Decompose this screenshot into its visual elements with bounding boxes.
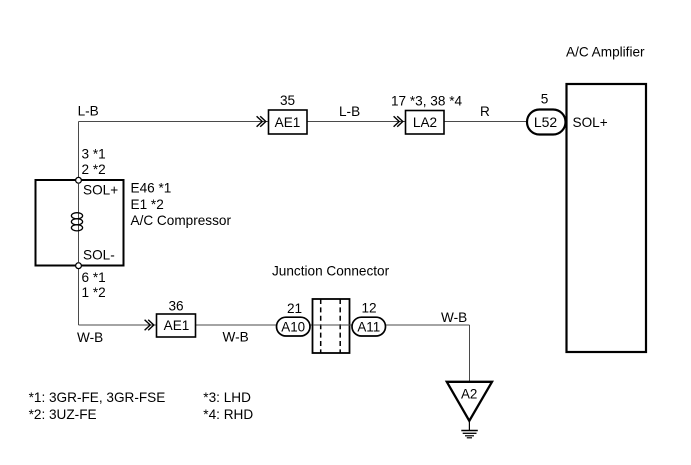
svg-text:AE1: AE1 (164, 318, 190, 333)
svg-text:17 *3, 38 *4: 17 *3, 38 *4 (391, 94, 462, 109)
svg-text:LA2: LA2 (413, 115, 437, 130)
svg-text:21: 21 (287, 301, 302, 316)
svg-text:SOL+: SOL+ (573, 115, 608, 130)
svg-text:35: 35 (280, 93, 295, 108)
svg-text:A2: A2 (461, 387, 477, 402)
svg-text:2 *2: 2 *2 (82, 162, 106, 177)
svg-text:A/C Compressor: A/C Compressor (131, 213, 232, 228)
svg-text:R: R (480, 104, 490, 119)
svg-text:*3: LHD: *3: LHD (203, 390, 251, 405)
svg-text:W-B: W-B (77, 330, 103, 345)
svg-text:W-B: W-B (223, 330, 249, 345)
svg-text:*2: 3UZ-FE: *2: 3UZ-FE (29, 407, 97, 422)
svg-text:36: 36 (168, 299, 183, 314)
svg-text:Junction Connector: Junction Connector (272, 264, 390, 279)
svg-text:L52: L52 (534, 114, 558, 130)
svg-text:SOL-: SOL- (83, 248, 115, 263)
svg-text:E46 *1: E46 *1 (131, 181, 172, 196)
svg-text:L-B: L-B (339, 104, 360, 119)
svg-text:L-B: L-B (78, 104, 99, 119)
svg-text:A10: A10 (281, 320, 305, 335)
svg-text:E1 *2: E1 *2 (131, 197, 164, 212)
svg-text:A11: A11 (357, 320, 380, 335)
svg-text:3 *1: 3 *1 (82, 147, 106, 162)
svg-text:AE1: AE1 (275, 115, 301, 130)
svg-text:12: 12 (361, 301, 376, 316)
svg-text:SOL+: SOL+ (83, 183, 118, 198)
svg-text:*1: 3GR-FE, 3GR-FSE: *1: 3GR-FE, 3GR-FSE (29, 390, 166, 405)
svg-text:W-B: W-B (441, 310, 467, 325)
svg-text:*4: RHD: *4: RHD (203, 407, 253, 422)
svg-text:1 *2: 1 *2 (82, 285, 106, 300)
svg-text:6 *1: 6 *1 (82, 270, 106, 285)
svg-text:5: 5 (541, 92, 549, 107)
svg-text:A/C Amplifier: A/C Amplifier (566, 45, 645, 60)
